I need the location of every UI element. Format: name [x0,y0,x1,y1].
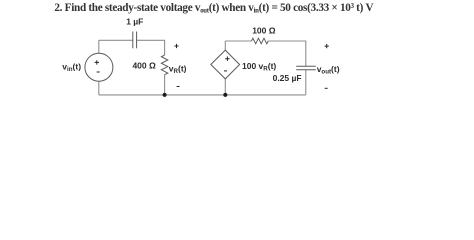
wire diamond bottom stub [224,79,226,95]
svg-text:100 Ω: 100 Ω [252,26,276,36]
plus for vout [325,44,329,48]
resistor R2 100ohm zigzag [252,38,269,44]
svg-text:vout(t): vout(t) [317,64,340,76]
wire source bottom stub [98,81,100,95]
capacitor C2 0.25uF plates [296,65,316,67]
svg-text:vin(t): vin(t) [62,61,81,73]
minus for vR [177,86,180,88]
source V1 circle [85,53,113,81]
minus inside source V1 [97,71,100,73]
minus inside diamond U1 [224,70,227,72]
resistor R1 400ohm zigzag [161,55,167,75]
wire C1 to top-right corner and down to R1 [137,40,165,55]
problem title text [54,2,373,14]
minus for vout [325,87,328,89]
svg-text:vR(t): vR(t) [169,63,187,75]
svg-text:0.25 µF: 0.25 µF [273,73,302,83]
wire bottom rail [99,94,306,96]
wire source top stub [98,40,100,53]
svg-text:1 µF: 1 µF [126,17,143,27]
svg-text:100 vR(t): 100 vR(t) [242,61,276,73]
wire R1 bottom to bottom rail [164,75,166,95]
plus inside source V1 [95,60,99,64]
plus for vR [174,44,178,48]
svg-text:400 Ω: 400 Ω [132,60,156,70]
wire diamond top stub [224,41,226,50]
plus inside diamond U1 [225,57,229,61]
wire top-right rail right of R2 and down to C2 [268,41,306,66]
junction dot A [163,93,167,97]
wire top-left from source to C1 [99,39,133,41]
wire C2 bottom to bottom rail [305,70,307,95]
junction dot B [223,93,227,97]
dependent source U1 diamond [211,50,240,79]
wire top-right rail left of R2 [225,40,251,42]
capacitor C1 1uF plates [132,32,134,49]
